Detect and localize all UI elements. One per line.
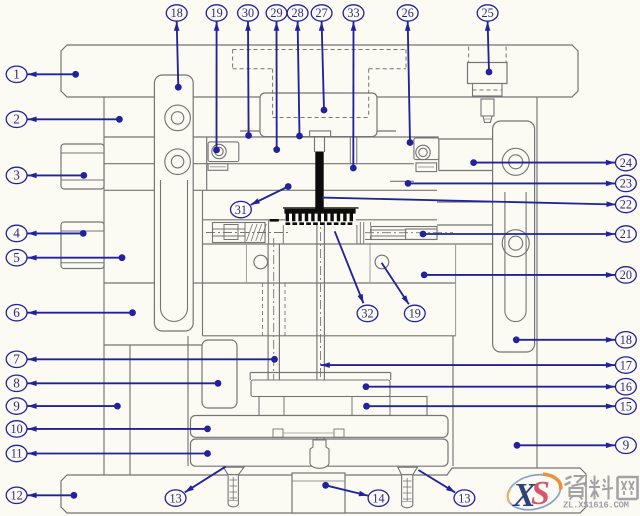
leader 19m bbox=[382, 263, 409, 305]
right bar screw 2 bbox=[502, 230, 529, 257]
hole circle right pin19 bbox=[375, 255, 389, 269]
ejector retainer plate bbox=[251, 380, 390, 397]
leader 19 bbox=[216, 21, 218, 150]
balloon 11 bbox=[6, 445, 27, 461]
svg-text:19: 19 bbox=[211, 6, 223, 20]
plate stack left edge bbox=[103, 97, 105, 475]
balloon 2 bbox=[6, 111, 27, 127]
balloon 7 bbox=[6, 351, 27, 367]
svg-text:1: 1 bbox=[13, 67, 20, 82]
hidden pin dashes bbox=[262, 283, 264, 336]
balloon 15 bbox=[616, 398, 637, 414]
cavity left wing block bbox=[208, 142, 239, 162]
balloon 32 bbox=[357, 305, 378, 321]
svg-text:13: 13 bbox=[170, 491, 182, 505]
core left edge bbox=[202, 190, 204, 335]
cavity right wing block bbox=[414, 138, 439, 160]
leader 28 bbox=[298, 21, 300, 136]
svg-text:2: 2 bbox=[13, 112, 20, 127]
svg-text:ZL.XS1616.COM: ZL.XS1616.COM bbox=[563, 501, 629, 511]
leader 17 bbox=[321, 364, 616, 366]
svg-text:5: 5 bbox=[13, 250, 20, 265]
leader 32 bbox=[335, 231, 364, 303]
slide band bottom bbox=[203, 243, 493, 245]
sprue funnel bbox=[310, 131, 331, 137]
leader 1 bbox=[27, 73, 76, 75]
balloon 10 bbox=[6, 421, 27, 437]
leader 9 bbox=[27, 405, 117, 407]
svg-text:6: 6 bbox=[13, 305, 20, 320]
part lower dashes bbox=[286, 222, 353, 225]
bottom screw left bbox=[223, 467, 244, 475]
svg-text:29: 29 bbox=[270, 6, 282, 20]
leader 26 bbox=[408, 21, 410, 142]
retainer lower band bbox=[259, 397, 427, 416]
svg-text:30: 30 bbox=[242, 6, 254, 20]
leader 20 bbox=[424, 274, 615, 276]
balloon 31 bbox=[231, 201, 252, 217]
ejector plate E1 bbox=[191, 416, 449, 438]
leader 9b bbox=[517, 444, 616, 446]
balloon 25 bbox=[477, 5, 498, 21]
right guide bar bbox=[493, 121, 535, 352]
balloon 28 bbox=[287, 5, 308, 21]
left bar screw 2 bbox=[165, 149, 191, 175]
leader 31 bbox=[251, 187, 289, 205]
balloon 13 bbox=[165, 490, 186, 506]
balloon 8 bbox=[6, 375, 27, 391]
leader 2 bbox=[27, 118, 119, 120]
leader 18 bbox=[177, 21, 179, 87]
balloon 33 bbox=[343, 5, 364, 21]
spacer rail E left bbox=[187, 336, 189, 466]
leader 25 bbox=[488, 21, 489, 72]
left clamp block upper bbox=[61, 144, 104, 189]
left bar slot bbox=[161, 180, 188, 322]
right slide insert bbox=[371, 227, 437, 240]
support pillar bbox=[202, 340, 237, 408]
leader 11 bbox=[27, 453, 208, 455]
leader 14 bbox=[326, 485, 368, 495]
balloon 14 bbox=[368, 490, 389, 506]
stripper plate lines bbox=[240, 130, 396, 132]
sprue black bbox=[315, 152, 323, 211]
svg-text:31: 31 bbox=[235, 203, 247, 217]
leader 27 bbox=[322, 21, 324, 110]
balloon 19 bbox=[206, 5, 227, 21]
svg-text:3: 3 bbox=[13, 168, 20, 183]
svg-text:21: 21 bbox=[620, 227, 632, 241]
screw hole right bbox=[416, 145, 430, 159]
balloon 19 bbox=[404, 305, 425, 321]
leader 15 bbox=[367, 405, 616, 407]
svg-text:13: 13 bbox=[458, 491, 470, 505]
balloon 30 bbox=[238, 5, 259, 21]
svg-text:9: 9 bbox=[623, 438, 630, 453]
balloon 20 bbox=[616, 267, 637, 283]
svg-text:16: 16 bbox=[620, 380, 632, 394]
svg-text:10: 10 bbox=[11, 422, 23, 436]
svg-text:8: 8 bbox=[13, 376, 20, 391]
nozzle tip bbox=[481, 99, 494, 116]
leader 29 bbox=[276, 21, 278, 149]
cavity insert block bbox=[260, 93, 377, 137]
leader 3 bbox=[27, 174, 84, 176]
sprue puller bottom bbox=[310, 440, 329, 468]
leader 7 bbox=[27, 358, 275, 360]
balloon 27 bbox=[311, 5, 332, 21]
balloon 16 bbox=[616, 379, 637, 395]
svg-text:25: 25 bbox=[482, 6, 494, 20]
balloon 18 bbox=[616, 332, 637, 348]
balloon 4 bbox=[6, 225, 27, 241]
svg-text:S: S bbox=[531, 475, 550, 512]
left guide bar bbox=[154, 75, 193, 331]
svg-text:11: 11 bbox=[11, 447, 23, 461]
parting line bbox=[104, 189, 437, 191]
svg-text:33: 33 bbox=[347, 6, 359, 20]
svg-text:17: 17 bbox=[620, 358, 632, 372]
molded part comb bbox=[284, 209, 355, 222]
svg-text:9: 9 bbox=[13, 398, 20, 413]
bottom screw right bbox=[398, 467, 418, 475]
leader 30 bbox=[247, 21, 250, 135]
svg-text:20: 20 bbox=[620, 268, 632, 282]
sprue bushing screw part25 bbox=[468, 47, 470, 63]
balloon 17 bbox=[616, 357, 637, 373]
leader 18b bbox=[516, 339, 615, 341]
svg-text:14: 14 bbox=[372, 491, 384, 505]
svg-text:7: 7 bbox=[13, 352, 20, 367]
svg-text:18: 18 bbox=[171, 6, 183, 20]
leader 16 bbox=[366, 386, 616, 388]
balloon 24 bbox=[616, 154, 637, 170]
balloon 5 bbox=[6, 250, 27, 266]
svg-text:18: 18 bbox=[620, 333, 632, 347]
balloon 6 bbox=[6, 305, 27, 321]
balloon 26 bbox=[397, 5, 418, 21]
leader 12 bbox=[27, 494, 74, 496]
pin 33 sleeve bbox=[349, 137, 351, 164]
left slide insert hatched bbox=[213, 223, 266, 243]
leader 13R bbox=[418, 470, 455, 492]
leader 21 bbox=[423, 233, 616, 235]
svg-text:28: 28 bbox=[292, 6, 304, 20]
svg-text:15: 15 bbox=[620, 399, 632, 413]
leader 5 bbox=[27, 257, 122, 259]
right tab bbox=[416, 163, 437, 172]
screw hole left bbox=[212, 144, 226, 158]
bottom clamp plate bbox=[61, 468, 586, 513]
logo text zi-liao-wang hand drawn bbox=[565, 477, 572, 486]
leader 10 bbox=[27, 428, 208, 430]
right slide centerlines bbox=[365, 232, 453, 234]
balloon 29 bbox=[266, 5, 287, 21]
ejector plate E2 bbox=[191, 439, 449, 466]
gate mark black bbox=[270, 219, 279, 222]
left tab bbox=[208, 164, 228, 171]
right bar slot bbox=[505, 192, 526, 322]
right bar screw 1 bbox=[502, 148, 529, 175]
ejector pin bbox=[267, 244, 269, 380]
svg-text:19: 19 bbox=[409, 307, 421, 321]
left clamp block lower bbox=[61, 222, 104, 269]
balloon 21 bbox=[616, 226, 637, 242]
svg-text:24: 24 bbox=[620, 156, 632, 170]
hole circle left bbox=[254, 255, 268, 269]
leader 23 bbox=[408, 182, 616, 184]
leader 8 bbox=[27, 382, 218, 384]
left slide centerline bbox=[206, 232, 290, 234]
mid right edge bbox=[536, 97, 538, 468]
logo watermark XS ellipse bbox=[504, 469, 565, 515]
E1 small notches bbox=[273, 429, 283, 437]
leader 13L bbox=[185, 467, 226, 493]
svg-text:26: 26 bbox=[402, 6, 414, 20]
balloon 1 bbox=[6, 66, 27, 82]
spacer rail left inner edge bbox=[129, 345, 131, 475]
svg-text:12: 12 bbox=[11, 489, 23, 503]
balloon 9 bbox=[616, 437, 637, 453]
top clamp plate bbox=[61, 45, 578, 97]
A plate bottom bbox=[104, 136, 439, 138]
core plate bottom bbox=[104, 282, 456, 284]
leader 22 bbox=[322, 198, 616, 205]
core pocket walls bbox=[268, 220, 270, 244]
balloon 3 bbox=[6, 167, 27, 183]
balloon 18 bbox=[166, 5, 187, 21]
balloon 23 bbox=[616, 175, 637, 191]
leader 6 bbox=[27, 312, 133, 314]
core plate top bbox=[203, 219, 286, 221]
leader 4 bbox=[27, 232, 83, 234]
stop plate bbox=[250, 372, 391, 374]
svg-text:27: 27 bbox=[316, 6, 328, 20]
balloon 22 bbox=[616, 196, 637, 212]
balloon 13 bbox=[454, 490, 475, 506]
support plate bottom bbox=[203, 335, 456, 337]
leader 33 bbox=[352, 21, 354, 168]
svg-text:22: 22 bbox=[620, 198, 632, 212]
leader 24 bbox=[474, 162, 616, 164]
left bar screw 1 bbox=[165, 105, 191, 131]
balloon 12 bbox=[6, 487, 27, 503]
part14 block bbox=[292, 473, 345, 513]
svg-text:32: 32 bbox=[361, 307, 373, 321]
svg-text:23: 23 bbox=[620, 177, 632, 191]
center pin sprue puller bbox=[316, 225, 318, 380]
svg-text:4: 4 bbox=[13, 226, 20, 241]
balloon 9 bbox=[6, 398, 27, 414]
dashed pocket hidden outline bbox=[233, 49, 406, 51]
